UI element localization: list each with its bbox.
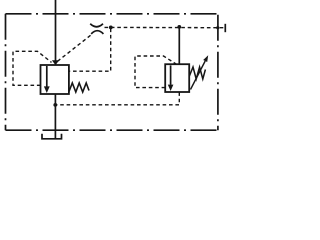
node C (drain junction) xyxy=(53,103,57,107)
wire: pilot supply line from node B down to pilot valve xyxy=(178,27,180,64)
orifice (restriction) xyxy=(90,24,103,27)
tank symbol xyxy=(42,134,62,139)
enclosure boundary (dash-dot frame) xyxy=(6,14,218,130)
node A (orifice outlet junction) xyxy=(109,26,113,30)
node B (pilot valve branch junction) xyxy=(177,25,181,29)
pilot line: diagonal from valve inlet to orifice xyxy=(58,34,93,62)
node at frame crossing xyxy=(216,26,219,29)
wire: main valve outlet to tank xyxy=(54,94,56,139)
pilot line: dashed box left of pilot valve xyxy=(135,56,176,88)
main relief valve V1 envelope xyxy=(41,65,69,94)
pilot line: down from node A to main valve spring chamber xyxy=(70,29,111,72)
pilot drain line (dashed) from pilot valve outlet to tank line xyxy=(56,92,179,105)
vent port tick xyxy=(224,24,226,32)
pilot line: orifice outlet to vent port (dashed) xyxy=(105,26,225,28)
pilot line: dashed box left of main valve xyxy=(13,51,52,85)
pilot valve flow-path arrow xyxy=(170,65,172,84)
main valve flow-path arrow xyxy=(46,66,48,87)
spring of main valve xyxy=(69,83,89,92)
arrowhead at main valve inlet xyxy=(52,60,59,65)
wire: main pressure line P from top xyxy=(55,0,57,61)
adjustable spring of pilot valve xyxy=(189,67,205,79)
adjustment arrow through spring xyxy=(191,61,206,90)
pilot relief valve V2 envelope xyxy=(165,64,189,92)
